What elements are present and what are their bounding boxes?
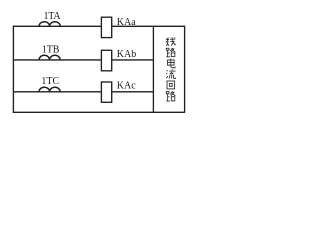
- svg-text:KAa: KAa: [117, 17, 136, 28]
- vertical label: char 路 (lu): [166, 48, 175, 57]
- wire: phase A row (top): [13, 25, 185, 27]
- svg-text:1TA: 1TA: [44, 11, 62, 22]
- current transformer 1TC: [39, 87, 60, 92]
- svg-text:1TC: 1TC: [41, 76, 59, 87]
- vertical label: char 路 (lu) 2: [166, 91, 175, 101]
- wire: bottom return: [13, 111, 185, 113]
- wire: phase C row: [13, 91, 153, 93]
- vertical label: char 线 (xian): [166, 37, 175, 46]
- svg-text:KAb: KAb: [117, 49, 136, 60]
- vertical label: char 回 (hui): [167, 81, 175, 89]
- wire: line-zone left vertical: [152, 26, 154, 113]
- relay coil KAc: [101, 82, 111, 102]
- vertical label: char 流 (liu): [166, 69, 175, 78]
- wire: line-zone right vertical border: [184, 26, 186, 113]
- relay coil KAa: [101, 17, 111, 37]
- current transformer 1TB: [39, 55, 60, 60]
- svg-text:KAc: KAc: [117, 81, 136, 92]
- svg-text:1TB: 1TB: [42, 44, 60, 55]
- vertical label: char 电 (dian): [168, 59, 176, 68]
- wire: phase B row: [13, 59, 153, 61]
- relay coil KAb: [101, 50, 111, 71]
- wire: left vertical bus: [12, 26, 14, 113]
- current transformer 1TA: [39, 22, 60, 27]
